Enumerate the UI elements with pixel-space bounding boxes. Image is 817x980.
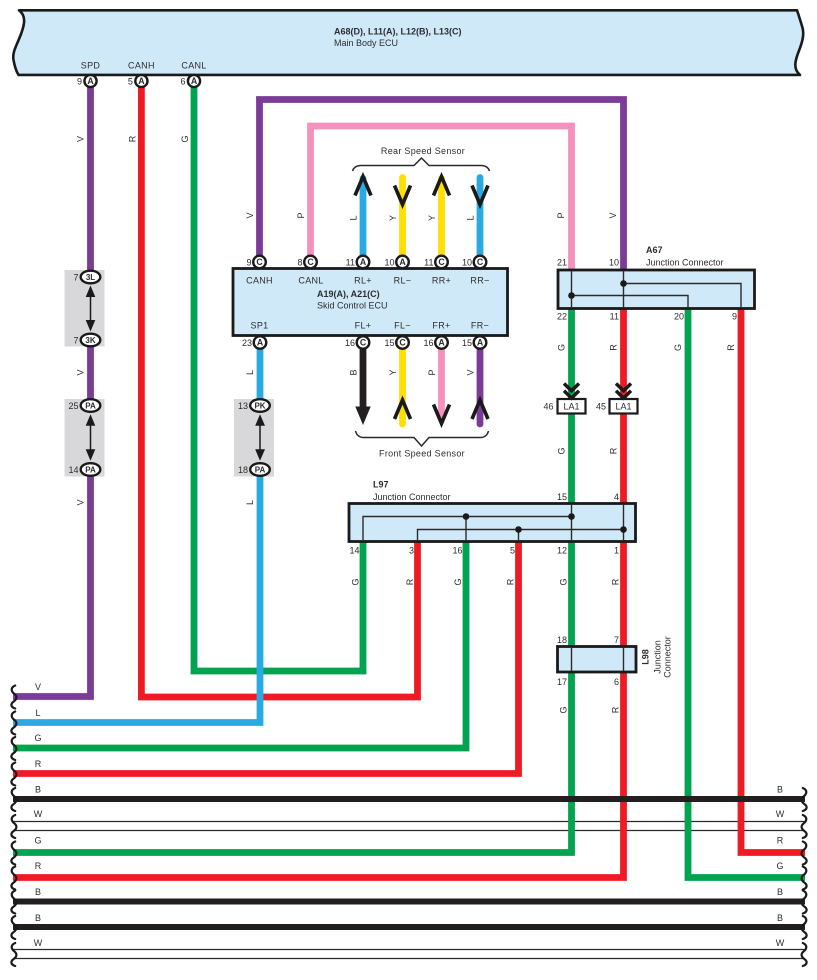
svg-text:16: 16 [423, 338, 433, 348]
svg-text:G: G [34, 733, 41, 743]
double chevron into LA1 pin46 [564, 384, 579, 399]
wire green A67 pin20 down to bottom row, right to edge [688, 309, 805, 878]
L97 internal line pin4-1 [623, 505, 625, 540]
svg-text:9: 9 [77, 77, 82, 87]
pin 8C CANL skid ECU [304, 256, 317, 269]
svg-text:V: V [76, 369, 86, 375]
wire red L97 pin5 down to R row, left to edge [13, 540, 519, 774]
svg-text:1: 1 [614, 546, 619, 556]
svg-text:A67: A67 [646, 245, 663, 255]
svg-text:V: V [466, 369, 476, 375]
L98 internal line pin7-6 [623, 648, 625, 671]
brace Rear Speed Sensor [353, 158, 490, 171]
svg-text:9: 9 [732, 312, 737, 322]
oval 18PA inline connector [250, 463, 270, 476]
oval 25PA inline connector [81, 399, 101, 412]
svg-text:R: R [609, 344, 619, 351]
svg-text:6: 6 [180, 77, 185, 87]
pin 6A CANL Main Body ECU [188, 75, 200, 87]
junction dot L97 pin5 [515, 526, 522, 533]
svg-text:11: 11 [610, 312, 619, 322]
wire FL- yellow from front sensor [399, 349, 406, 424]
svg-text:Y: Y [427, 215, 437, 221]
svg-text:Junction Connector: Junction Connector [646, 258, 724, 268]
inline connector 25PA/14PA gray box [65, 399, 105, 477]
svg-text:C: C [307, 257, 314, 267]
svg-text:PA: PA [85, 402, 96, 411]
svg-text:22: 22 [557, 312, 567, 322]
svg-text:B: B [35, 887, 41, 897]
svg-text:RL+: RL+ [354, 276, 372, 286]
svg-text:PA: PA [255, 466, 266, 475]
A67 internal line pin10-11 [623, 271, 625, 307]
svg-text:Skid Control ECU: Skid Control ECU [317, 301, 388, 311]
svg-text:A19(A), A21(C): A19(A), A21(C) [317, 289, 380, 299]
wire green L97 pin12 through L98 pin18/17 down, left to edge [13, 540, 572, 853]
wire SP1 blue: skid ECU pin 23A down to L row, left to edge [13, 349, 260, 723]
oval 13PK inline connector [250, 399, 270, 412]
svg-text:7: 7 [73, 336, 78, 346]
wire W bus upper line1 [13, 821, 805, 823]
double arrow between 3L and 3K [86, 286, 96, 332]
chevron up on FL- [395, 400, 411, 419]
svg-text:5: 5 [510, 546, 515, 556]
svg-text:B: B [349, 369, 359, 375]
svg-text:V: V [76, 136, 86, 142]
svg-text:R: R [405, 578, 415, 585]
L97 internal branch pin5 [518, 530, 520, 541]
svg-text:RR+: RR+ [432, 276, 451, 286]
torn edge B3 row right [802, 916, 807, 939]
pin 15A FR- skid ECU [474, 336, 487, 349]
svg-text:25: 25 [68, 401, 78, 411]
svg-text:R: R [611, 706, 621, 713]
svg-text:SP1: SP1 [251, 321, 269, 331]
L98 internal line pin18-17 [571, 648, 573, 671]
svg-text:18: 18 [238, 465, 248, 475]
brace Front Speed Sensor [356, 431, 489, 446]
torn edge W2 row right [802, 943, 807, 966]
Main Body ECU box [13, 10, 803, 75]
L97 internal branch pin16 [465, 517, 467, 541]
svg-text:R: R [506, 578, 516, 585]
svg-text:Front Speed Sensor: Front Speed Sensor [379, 449, 465, 459]
wire purple loop: skid pin 9C up, right, down to A67 pin 10 [260, 100, 624, 272]
svg-text:B: B [777, 785, 783, 795]
svg-text:R: R [35, 759, 42, 769]
svg-text:3L: 3L [86, 273, 95, 282]
wire CANH red: ECU pin 5A down, right, up to L97 pin 3 [141, 88, 417, 698]
A67 internal branch to pin20 [572, 296, 689, 308]
svg-text:16: 16 [345, 338, 355, 348]
wire RR- blue from rear sensor [477, 178, 484, 257]
svg-text:R: R [609, 447, 619, 454]
junction dot L97 pin16 [463, 513, 470, 520]
torn edge B2 row right [802, 891, 807, 914]
chevron down on FR+ [434, 405, 450, 424]
inline connector 13PK/18PA gray box [234, 399, 274, 477]
svg-text:A: A [87, 76, 94, 86]
svg-text:B: B [35, 913, 41, 923]
svg-text:12: 12 [557, 546, 567, 556]
svg-text:14: 14 [68, 465, 78, 475]
chevron down on RR- [472, 186, 488, 205]
chevron up on RR+ [434, 177, 450, 196]
arrowhead down on FL+ [355, 407, 370, 426]
svg-text:C: C [438, 257, 445, 267]
oval 3K inline connector [81, 334, 101, 347]
svg-text:10: 10 [462, 258, 472, 268]
svg-text:L98: L98 [641, 649, 651, 665]
chevron down on RL- [395, 186, 411, 205]
svg-text:R: R [777, 836, 784, 846]
svg-text:V: V [245, 212, 255, 218]
pin 15C FL- skid ECU [396, 336, 409, 349]
svg-text:CANH: CANH [128, 61, 155, 71]
svg-text:R: R [611, 578, 621, 585]
oval 14PA inline connector [81, 463, 101, 476]
svg-text:18: 18 [557, 635, 567, 645]
wire FL+ black shaft to front sensor [360, 349, 367, 410]
torn edge W row right [802, 815, 807, 838]
svg-text:W: W [34, 938, 43, 948]
svg-text:B: B [777, 887, 783, 897]
svg-text:G: G [557, 447, 567, 454]
oval 3L inline connector [81, 271, 101, 284]
chevron up on RL+ [355, 177, 371, 196]
wire RL- yellow from rear sensor [399, 178, 406, 257]
torn edge B row right [802, 788, 807, 811]
junction dot L97 pin4/1 [620, 526, 627, 533]
pin 16C FL+ skid ECU [357, 336, 370, 349]
svg-text:A: A [138, 76, 145, 86]
pin 10C RR- skid ECU [474, 256, 487, 269]
junction dot A67 pin21/20 [568, 292, 575, 299]
svg-text:11: 11 [424, 258, 433, 268]
svg-text:15: 15 [384, 338, 394, 348]
torn edge G row left [11, 737, 16, 760]
svg-text:P: P [427, 369, 437, 375]
wire B bus 2 [13, 899, 805, 905]
wire W bus lower line2 [13, 958, 805, 960]
pin 11C RR+ skid ECU [435, 256, 448, 269]
svg-text:CANL: CANL [181, 61, 206, 71]
svg-text:11: 11 [346, 258, 355, 268]
svg-text:R: R [127, 135, 137, 142]
svg-text:3K: 3K [85, 336, 95, 345]
torn edge B2 row left [11, 891, 16, 914]
svg-text:W: W [776, 938, 785, 948]
svg-text:P: P [296, 212, 306, 218]
svg-text:16: 16 [452, 546, 462, 556]
wire FR- purple from front sensor [477, 349, 484, 424]
svg-text:R: R [35, 861, 42, 871]
svg-text:PA: PA [85, 466, 96, 475]
wire red A67 pin11 through LA1 pin45 to L97 pin4 [620, 309, 627, 505]
pin 10A RL- skid ECU [396, 256, 409, 269]
junction connector A67 box [558, 270, 755, 309]
svg-text:G: G [559, 706, 569, 713]
svg-text:R: R [726, 344, 736, 351]
svg-text:L: L [245, 370, 255, 375]
svg-text:15: 15 [557, 492, 567, 502]
L97 internal line pin15-12 [571, 505, 573, 540]
torn edge V row left [11, 686, 16, 709]
svg-text:G: G [557, 344, 567, 351]
svg-text:46: 46 [543, 402, 553, 412]
L97 internal red bus branch [418, 530, 624, 541]
svg-text:Main Body ECU: Main Body ECU [334, 38, 398, 48]
svg-text:FR+: FR+ [432, 321, 450, 331]
svg-text:45: 45 [596, 402, 606, 412]
svg-text:Y: Y [388, 369, 398, 375]
junction dot L97 pin15/12 [568, 513, 575, 520]
svg-text:Junction Connector: Junction Connector [373, 492, 451, 502]
svg-text:LA1: LA1 [615, 402, 631, 412]
svg-text:G: G [34, 836, 41, 846]
torn edge R2 row left [11, 867, 16, 890]
svg-text:L97: L97 [373, 480, 389, 490]
torn edge R row right [802, 842, 807, 865]
svg-text:RL−: RL− [394, 276, 412, 286]
torn edge G2 row left [11, 842, 16, 865]
wire red A67 pin9 down to bottom row, right to edge [741, 309, 805, 853]
pin 9C CANH skid ECU [253, 256, 266, 269]
svg-text:L: L [349, 215, 359, 220]
torn edge L row left [11, 712, 16, 735]
svg-text:14: 14 [349, 546, 359, 556]
A67 internal branch to pin9 [624, 284, 742, 308]
pin 11A RL+ skid ECU [357, 256, 370, 269]
svg-text:7: 7 [73, 273, 78, 283]
svg-text:15: 15 [462, 338, 472, 348]
pin 9A SPD Main Body ECU [84, 75, 96, 87]
svg-text:V: V [76, 499, 86, 505]
torn edge R row left [11, 763, 16, 786]
pin 5A CANH Main Body ECU [135, 75, 147, 87]
svg-text:Junction: Junction [653, 640, 663, 674]
svg-text:V: V [35, 682, 41, 692]
svg-text:FR−: FR− [471, 321, 489, 331]
svg-text:G: G [673, 344, 683, 351]
pin 23A SP1 skid ECU [254, 336, 267, 349]
svg-text:C: C [360, 338, 367, 348]
svg-text:A68(D), L11(A), L12(B), L13(C): A68(D), L11(A), L12(B), L13(C) [334, 27, 462, 37]
svg-text:17: 17 [557, 677, 567, 687]
svg-text:V: V [608, 212, 618, 218]
svg-text:B: B [777, 913, 783, 923]
svg-text:20: 20 [674, 312, 684, 322]
wire RL+ blue to rear sensor [360, 179, 367, 257]
svg-text:L: L [245, 500, 255, 505]
connector LA1 pin45 box [610, 399, 638, 414]
svg-text:C: C [256, 257, 263, 267]
svg-text:4: 4 [614, 492, 619, 502]
svg-text:L: L [466, 215, 476, 220]
L97 internal green bus branch [363, 517, 572, 541]
svg-text:21: 21 [557, 258, 567, 268]
svg-text:A: A [360, 257, 367, 267]
wire green L97 pin16 down to G row, left to edge [13, 540, 466, 748]
svg-text:L: L [35, 708, 40, 718]
svg-text:PK: PK [254, 402, 265, 411]
inline connector 3L/3K gray box [65, 270, 105, 347]
torn edge W2 row left [11, 943, 16, 966]
junction connector L98 box [558, 647, 637, 673]
wire FR+ pink to front sensor [438, 349, 445, 417]
svg-text:A: A [477, 338, 484, 348]
svg-text:RR−: RR− [470, 276, 489, 286]
svg-text:Y: Y [388, 215, 398, 221]
svg-text:C: C [477, 257, 484, 267]
svg-text:23: 23 [242, 338, 252, 348]
svg-text:Connector: Connector [663, 636, 673, 678]
junction connector L97 box [349, 504, 636, 542]
svg-text:G: G [453, 578, 463, 585]
svg-text:G: G [559, 578, 569, 585]
svg-text:A: A [399, 257, 406, 267]
svg-text:P: P [556, 212, 566, 218]
wire SPD purple: ECU pin 9A down to V row, left to edge [13, 88, 91, 697]
svg-text:10: 10 [609, 258, 619, 268]
torn edge B3 row left [11, 916, 16, 939]
svg-text:8: 8 [297, 258, 302, 268]
svg-text:3: 3 [409, 546, 414, 556]
Skid Control ECU box [233, 269, 508, 336]
chevron up on FR- [472, 400, 488, 419]
junction dot A67 pin10/9 [620, 280, 627, 287]
svg-text:6: 6 [614, 677, 619, 687]
wire green A67 pin22 through LA1 pin46 to L97 pin15 [568, 309, 575, 505]
svg-text:A: A [438, 338, 445, 348]
svg-text:SPD: SPD [81, 61, 101, 71]
wire red L97 pin1 through L98 pin7/6 down, left to edge [13, 540, 624, 878]
svg-text:7: 7 [614, 635, 619, 645]
pin 16A FR+ skid ECU [435, 336, 448, 349]
svg-text:LA1: LA1 [563, 402, 579, 412]
wire W bus upper line2 [13, 830, 805, 832]
svg-text:W: W [34, 809, 43, 819]
svg-text:G: G [776, 861, 783, 871]
svg-text:Rear Speed Sensor: Rear Speed Sensor [381, 146, 465, 156]
svg-text:W: W [776, 809, 785, 819]
svg-text:CANL: CANL [298, 276, 323, 286]
wire RR+ yellow to rear sensor [438, 179, 445, 257]
svg-text:FL+: FL+ [355, 321, 372, 331]
svg-text:G: G [351, 578, 361, 585]
torn edge B row left [11, 788, 16, 811]
connector LA1 pin46 box [558, 399, 586, 414]
svg-text:B: B [35, 785, 41, 795]
svg-text:13: 13 [238, 401, 248, 411]
svg-text:CANH: CANH [246, 276, 273, 286]
double arrow between 13PK and 18PA [255, 414, 265, 460]
svg-text:5: 5 [128, 77, 133, 87]
wire B bus 1 [13, 796, 805, 802]
svg-text:G: G [180, 135, 190, 142]
double arrow between 25PA and 14PA [86, 414, 96, 460]
wire CANL green: ECU pin 6A down, right, up to L97 pin 14 [194, 88, 363, 672]
svg-text:A: A [191, 76, 198, 86]
svg-text:FL−: FL− [394, 321, 411, 331]
torn edge W row left [11, 815, 16, 838]
wire B bus 3 [13, 924, 805, 930]
torn edge G row right [802, 867, 807, 890]
svg-text:A: A [257, 338, 264, 348]
wire pink loop: skid pin 8C up, right, down to A67 pin 21 [311, 126, 572, 271]
svg-text:9: 9 [246, 258, 251, 268]
svg-text:C: C [399, 338, 406, 348]
svg-text:10: 10 [384, 258, 394, 268]
double chevron into LA1 pin45 [616, 384, 631, 399]
wire W bus lower line1 [13, 949, 805, 951]
A67 internal line pin21-22 [571, 271, 573, 307]
